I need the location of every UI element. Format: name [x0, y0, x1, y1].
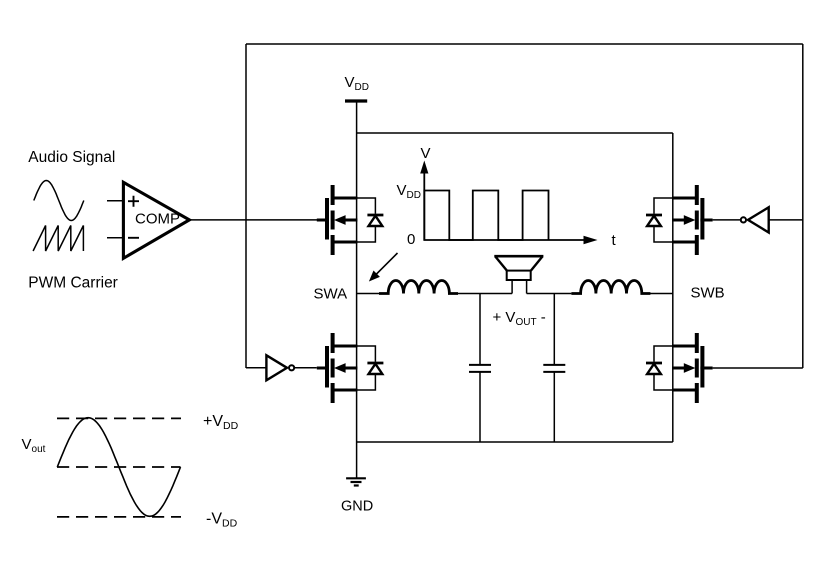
svg-text:+VDD: +VDD: [203, 413, 239, 432]
svg-text:+ VOUT -: + VOUT -: [493, 309, 546, 328]
svg-text:Audio Signal: Audio Signal: [28, 149, 115, 166]
svg-text:PWM Carrier: PWM Carrier: [28, 275, 118, 292]
svg-text:-VDD: -VDD: [206, 511, 238, 530]
svg-text:V: V: [421, 145, 431, 162]
svg-text:t: t: [612, 232, 617, 249]
svg-text:0: 0: [407, 231, 415, 248]
svg-text:SWA: SWA: [314, 286, 348, 303]
svg-text:VDD: VDD: [345, 74, 369, 93]
svg-text:SWB: SWB: [691, 285, 725, 302]
svg-text:VDD: VDD: [397, 182, 421, 201]
svg-text:COMP: COMP: [135, 211, 180, 228]
svg-text:GND: GND: [341, 499, 373, 515]
svg-text:Vout: Vout: [22, 436, 46, 455]
